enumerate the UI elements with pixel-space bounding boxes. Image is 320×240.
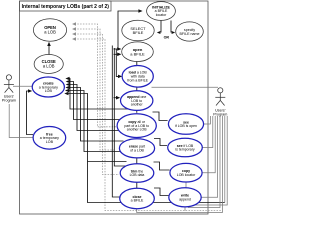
wire: elbow to copy locator	[154, 162, 170, 170]
svg-text:LOB: LOB	[46, 140, 54, 144]
outer frame	[20, 1, 209, 214]
wire: dashed OPEN along bottom	[75, 39, 223, 211]
svg-text:LOB: LOB	[45, 89, 53, 93]
ellipse: free a temporary LOB	[33, 127, 66, 150]
arrowhead gray into OPEN 2	[72, 27, 76, 30]
wire: right actor wrap joining create-bundle bottom	[224, 116, 226, 203]
ellipse: CLOSE a LOB	[34, 55, 63, 74]
arrowhead into create lower-left	[28, 89, 32, 93]
wire: branch into load	[116, 49, 119, 76]
ellipse: copy all or part of a LOB to another LOB	[117, 114, 156, 138]
arrowhead cluster into create 4	[65, 86, 69, 90]
wire: create bundle run 2 to copy	[68, 82, 123, 120]
wire: CLOSE up to OPEN	[48, 44, 50, 54]
wire: right actor to write append	[201, 116, 217, 197]
ellipse: SELECT BFILE	[122, 20, 154, 41]
wire: elbow to see if temporary	[154, 139, 167, 146]
wire: dashed OPEN to copy	[75, 24, 117, 127]
wire: create bundle run 5 to erase low	[68, 91, 122, 152]
svg-text:Users': Users'	[215, 109, 226, 113]
svg-text:another: another	[131, 103, 144, 107]
wire: create bundle run 4 to erase	[68, 88, 124, 142]
wire: chain down to trim upper	[114, 48, 126, 166]
ellipse: write append	[169, 188, 201, 207]
ellipse: OPEN a LOB	[33, 19, 66, 41]
wire: create bundle run 3 to copy low	[68, 85, 121, 131]
ellipse: erase part of a LOB	[119, 139, 154, 158]
wire: right actor to see if temporary	[203, 116, 213, 148]
wire: create bundle run 1 to append	[68, 79, 129, 110]
svg-text:Program: Program	[2, 99, 16, 103]
arrowhead to specify	[172, 31, 176, 34]
arrowhead cluster into create 2	[66, 80, 70, 84]
title box	[20, 1, 112, 11]
wire: INITIALIZE or-split left	[160, 21, 162, 33]
ellipse: trim the LOB data	[120, 164, 154, 183]
arrowhead into load	[118, 75, 122, 79]
arrowhead cluster into create 3	[66, 83, 70, 87]
svg-text:a BFILE: a BFILE	[131, 199, 144, 203]
svg-text:LOB locator: LOB locator	[177, 173, 196, 177]
wire: right actor wrap to close bottom	[137, 116, 223, 213]
arrowhead cluster into create 1	[65, 77, 69, 81]
wire: right actor to copy locator	[202, 116, 215, 173]
svg-text:a LOB: a LOB	[43, 64, 55, 69]
wire: left actor to create	[13, 85, 33, 87]
wire: open a BFILE to load	[136, 62, 138, 66]
svg-text:LOB data: LOB data	[130, 173, 145, 177]
wire: free to create	[27, 91, 34, 135]
arrowhead gray into OPEN 3	[72, 32, 76, 35]
arrowhead gray into OPEN 4	[72, 37, 76, 40]
ellipse: see if LOB is open	[168, 114, 203, 135]
wire: write append bottom stub	[184, 207, 186, 211]
wire: elbow to see if open	[153, 112, 168, 121]
ellipse: specify BFILE name	[176, 22, 204, 41]
svg-text:if LOB is open: if LOB is open	[175, 124, 197, 128]
ellipse: close a BFILE	[120, 188, 155, 208]
arrowhead into open a BFILE upper	[117, 47, 121, 51]
ellipse: open a BFILE	[122, 42, 154, 62]
svg-text:Program: Program	[213, 113, 227, 117]
wire: into open a BFILE upper	[114, 48, 119, 50]
wire: right actor to see if open	[204, 116, 211, 124]
wire: right actor wrap to copy locator bottom	[186, 116, 227, 205]
wire: into open a BFILE lower	[114, 53, 119, 55]
arrowhead gray into OPEN 1	[72, 22, 76, 25]
wire: create bundle branch to trim area	[88, 161, 127, 163]
wire: vertical chain to INITIALIZE	[118, 11, 140, 49]
wire: branch into append	[114, 97, 118, 99]
svg-text:BFILE name: BFILE name	[180, 32, 200, 36]
wire: right actor wrap to write append bottom	[189, 116, 221, 208]
arrowhead cluster into create 5	[65, 89, 69, 93]
arrowhead into INITIALIZE	[138, 9, 142, 13]
wire: create bundle run 6 bottom	[67, 94, 225, 203]
svg-text:Internal temporary LOBs (part: Internal temporary LOBs (part 2 of 2)	[22, 4, 110, 10]
wire: chain down to close a BFILE	[112, 46, 119, 198]
svg-text:of a LOB: of a LOB	[130, 148, 144, 152]
wire: load to right actor	[152, 86, 219, 88]
ellipse: see if LOB is temporary	[168, 138, 203, 157]
arrowhead cluster into create 6	[64, 92, 68, 96]
svg-text:a LOB: a LOB	[44, 30, 56, 35]
svg-text:locator: locator	[156, 13, 167, 17]
ellipse: INITIALIZE a BFILE locator	[147, 2, 176, 21]
wire: left actor to free	[9, 104, 33, 138]
wire: dashed OPEN to erase	[75, 29, 115, 150]
wire: append to copy	[136, 110, 138, 112]
svg-text:a BFILE: a BFILE	[130, 51, 145, 56]
svg-text:BFILE: BFILE	[133, 30, 144, 35]
wire: erase to trim	[136, 158, 138, 164]
wire: dashed OPEN to trim	[75, 34, 120, 175]
wire: trim to close	[136, 182, 138, 188]
actor: left Users' Program	[2, 75, 16, 103]
arrowhead to SELECT	[157, 31, 161, 34]
wire: elbow to write append	[154, 188, 169, 196]
ellipse: load a LOB with data from a BFILE	[122, 66, 153, 88]
wire: load to append	[136, 87, 138, 91]
wire: INITIALIZE or-split right	[170, 21, 172, 33]
svg-text:OR: OR	[164, 35, 170, 39]
ellipse: append one LOB to another	[121, 91, 153, 111]
actor: right Users' Program	[213, 88, 227, 117]
svg-text:from a BFILE: from a BFILE	[127, 78, 148, 82]
svg-text:append: append	[179, 197, 191, 201]
arrowhead into open a BFILE lower	[117, 53, 121, 57]
svg-text:is temporary: is temporary	[175, 148, 195, 152]
ellipse: create a temporary LOB	[32, 77, 64, 97]
svg-text:Users': Users'	[4, 95, 15, 99]
svg-text:another LOB: another LOB	[127, 128, 148, 132]
arrowhead up into OPEN	[47, 42, 51, 46]
arrowhead into append	[116, 96, 120, 100]
svg-text:specify: specify	[184, 28, 195, 32]
ellipse: copy LOB locator	[170, 163, 202, 182]
